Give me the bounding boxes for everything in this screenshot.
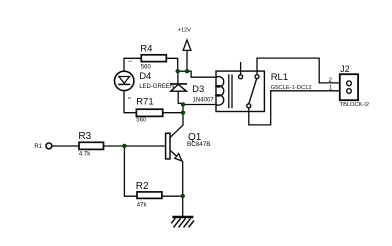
svg-text:G5CLE-1-DC12: G5CLE-1-DC12 [271, 85, 312, 91]
resistor R3 [79, 142, 104, 149]
svg-text:TBLOCK-I2: TBLOCK-I2 [340, 102, 369, 108]
svg-text:560: 560 [136, 118, 147, 124]
wire junction to junction vertical [182, 104, 184, 112]
node R1 input circle [46, 143, 52, 149]
svg-text:560: 560 [141, 64, 152, 70]
wire base junction down to R2 [124, 146, 137, 196]
ground [172, 217, 194, 227]
svg-text:R4: R4 [140, 44, 152, 55]
svg-text:RL1: RL1 [271, 72, 288, 83]
svg-text:J2: J2 [340, 64, 349, 74]
junction dot rail-R4 [176, 69, 180, 73]
wire Q1 emitter [170, 150, 183, 216]
wire collector node to relay coil bottom [183, 104, 216, 106]
wire R3 to Q1 base [104, 145, 166, 147]
wire +12V rail to relay coil top [178, 71, 216, 77]
wire relay common to J2 pin 1 [249, 91, 340, 125]
wire relay NO contact to J2 pin 2 [257, 58, 340, 83]
power +12V symbol [183, 40, 191, 50]
svg-text:D4: D4 [139, 71, 151, 82]
svg-text:R3: R3 [78, 131, 91, 142]
junction dot base node [122, 144, 126, 148]
wire relay NC stub [240, 63, 242, 75]
svg-text:47k: 47k [137, 202, 148, 208]
wire D3 anode to collector node [178, 91, 183, 104]
wire R4 right to +12V rail [166, 58, 177, 71]
svg-text:1N4007: 1N4007 [193, 98, 215, 104]
wire D3 cathode stem [177, 71, 179, 84]
svg-text:R1: R1 [34, 144, 42, 150]
svg-text:R2: R2 [136, 181, 149, 192]
wire D4 cathode to R71 left [124, 91, 136, 113]
wire Q1 collector [170, 113, 183, 138]
wire R4 left to D4 anode [124, 58, 141, 71]
junction dot rail-12V [185, 69, 189, 73]
transistor Q1 [166, 133, 182, 161]
svg-text:4.7k: 4.7k [79, 151, 91, 157]
svg-text:+12V: +12V [178, 27, 191, 33]
LED D4 [115, 71, 134, 90]
wire R1 node to R3 [52, 145, 79, 147]
wire R2 to emitter column [162, 195, 183, 197]
resistor R71 [136, 109, 162, 116]
junction dot emitter-R2 [181, 194, 185, 198]
junction dot coil bottom node [181, 102, 185, 106]
svg-text:D3: D3 [192, 84, 204, 95]
connector J2 [340, 74, 358, 100]
svg-text:BC847B: BC847B [187, 141, 210, 148]
relay RL1 [216, 71, 264, 111]
wire R71 right to collector node [163, 112, 183, 114]
resistor R2 [137, 192, 162, 199]
wire +12V stem [186, 51, 188, 72]
junction dot collector node [181, 111, 185, 115]
resistor R4 [141, 55, 166, 62]
diode D3 [171, 84, 187, 91]
svg-text:LED-GREEN: LED-GREEN [139, 84, 174, 90]
svg-text:R71: R71 [136, 96, 153, 107]
